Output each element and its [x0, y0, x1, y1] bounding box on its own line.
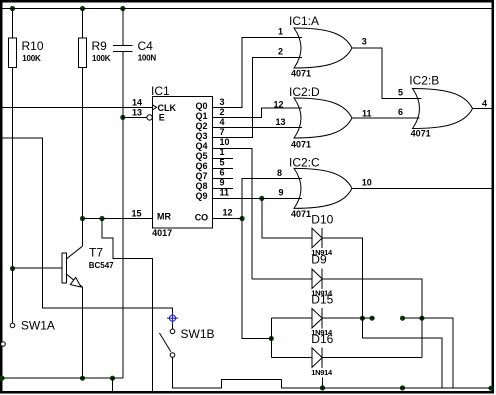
- wire IC2:D output to IC2:B input6: [352, 117, 420, 119]
- node Q9 D10 junction: [259, 196, 264, 201]
- svg-text:Q7: Q7: [195, 171, 207, 181]
- svg-text:5: 5: [220, 157, 225, 167]
- svg-text:4: 4: [482, 98, 487, 108]
- svg-text:4017: 4017: [152, 228, 172, 238]
- svg-text:12: 12: [274, 100, 284, 110]
- svg-text:MR: MR: [157, 212, 171, 222]
- svg-text:7: 7: [220, 127, 225, 137]
- node bus drop junction: [110, 376, 115, 381]
- svg-text:T7: T7: [89, 246, 103, 260]
- node anode link junction: [269, 336, 274, 341]
- svg-text:13: 13: [132, 108, 142, 118]
- svg-text:Q9: Q9: [195, 191, 207, 201]
- wire Q5 pin1 stub: [213, 157, 233, 159]
- switch SW1B: [169, 315, 175, 321]
- svg-text:13: 13: [276, 117, 286, 127]
- svg-text:Q2: Q2: [195, 121, 207, 131]
- svg-text:IC2:D: IC2:D: [289, 85, 320, 99]
- wire Q0 pin3 to IC1:A input1: [213, 38, 302, 108]
- svg-text:3: 3: [362, 37, 367, 47]
- svg-text:Q3: Q3: [195, 131, 207, 141]
- svg-text:D10: D10: [311, 213, 333, 227]
- node D15 line D9 junction: [419, 316, 424, 321]
- svg-text:5: 5: [398, 88, 403, 98]
- node bottom bus mid junction: [400, 385, 405, 390]
- wire MR line: [83, 218, 153, 220]
- wire Q8 pin9 stub: [213, 187, 233, 189]
- svg-text:D16: D16: [311, 332, 333, 346]
- wire IC1:A output to IC2:B input5: [352, 48, 422, 99]
- diode D10: [311, 213, 333, 258]
- node top-bus C4 junction: [120, 6, 125, 11]
- svg-text:11: 11: [220, 187, 230, 197]
- wire Q9 pin11 to IC2:C input9: [213, 197, 302, 199]
- node D15 line jog junction: [370, 316, 375, 321]
- svg-text:C4: C4: [138, 39, 154, 53]
- wire jog down from D10 cathode to bus: [362, 318, 442, 388]
- diode D15: [271, 292, 333, 337]
- svg-text:R10: R10: [22, 39, 44, 53]
- wire Q9 down to D10: [262, 198, 312, 238]
- wire D15 cathode line left segment: [322, 317, 374, 319]
- wire CO down to D15 D16 anodes: [242, 219, 271, 339]
- wire C4 bottom long vertical to left bus: [122, 52, 124, 379]
- svg-text:SW1B: SW1B: [181, 327, 215, 341]
- wire Q7 pin6 stub: [213, 177, 233, 179]
- node MR zigzag junction: [99, 216, 104, 221]
- wire bus to bottom border: [112, 378, 114, 392]
- wire R10 bottom to SW1A: [12, 68, 14, 324]
- svg-text:10: 10: [362, 177, 372, 187]
- svg-text:14: 14: [132, 98, 142, 108]
- node D15 line D10 junction: [360, 316, 365, 321]
- resistor R10: [9, 38, 17, 68]
- svg-text:IC2:C: IC2:C: [289, 156, 320, 170]
- svg-text:SW1A: SW1A: [21, 319, 55, 333]
- svg-text:6: 6: [220, 167, 225, 177]
- svg-text:CLK: CLK: [158, 103, 177, 113]
- wire Q4 pin10 down to D9: [213, 148, 253, 278]
- wire Q3 pin7 to IC1:A input2: [213, 57, 302, 137]
- wire Q6 pin5 stub: [213, 167, 233, 169]
- wire E line: [123, 116, 147, 118]
- svg-text:Q4: Q4: [195, 141, 207, 151]
- svg-text:4071: 4071: [411, 129, 431, 139]
- node D15 line mid junction: [400, 316, 405, 321]
- diode D9: [252, 253, 333, 298]
- svg-text:D15: D15: [311, 292, 333, 306]
- svg-text:8: 8: [277, 168, 282, 178]
- svg-text:2: 2: [220, 107, 225, 117]
- svg-text:4071: 4071: [291, 140, 311, 150]
- svg-text:3: 3: [220, 97, 225, 107]
- wire D10 cathode down to D15 line: [322, 238, 362, 318]
- svg-text:Q0: Q0: [195, 101, 207, 111]
- wire whisker above bus: [322, 378, 324, 388]
- wire zigzag MR to bottom border: [102, 219, 153, 393]
- wire CLK line from left border: [1, 106, 152, 108]
- gate IC2:B 4071 OR: [398, 74, 487, 139]
- svg-text:Q8: Q8: [195, 181, 207, 191]
- node top-bus R9 junction: [80, 6, 85, 11]
- svg-text:CO: CO: [195, 213, 209, 223]
- svg-text:2: 2: [278, 46, 283, 56]
- gate IC2:D 4071 OR: [274, 85, 372, 150]
- svg-text:4071: 4071: [291, 69, 311, 79]
- gate IC1:A 4071 OR: [278, 14, 367, 79]
- node bus border junction: [0, 376, 5, 381]
- wire left bottom bus: [1, 377, 123, 379]
- wire C4 top: [122, 9, 124, 46]
- wire Q1 pin2 to IC2:D input12: [213, 108, 302, 117]
- node MR R9-collector junction: [80, 216, 85, 221]
- wire D15 D16 anode link: [270, 318, 272, 357]
- IC1 enable bubble pin 13: [147, 115, 152, 120]
- wire top bus: [1, 8, 493, 10]
- IC1 clock wedge pin 14: [152, 105, 156, 110]
- wire R9 top: [82, 9, 84, 39]
- svg-text:12: 12: [223, 208, 233, 218]
- node CO junction: [240, 216, 245, 221]
- svg-text:Q6: Q6: [195, 161, 207, 171]
- wire Q2 pin4 to IC2:D input13: [213, 126, 302, 128]
- svg-text:BC547: BC547: [89, 261, 114, 270]
- node bottom bus D16 junction: [320, 385, 325, 390]
- svg-text:100K: 100K: [92, 54, 111, 63]
- svg-text:4071: 4071: [291, 209, 311, 219]
- svg-text:Q5: Q5: [195, 151, 207, 161]
- wire SW1B bottom run: [173, 357, 494, 388]
- svg-text:D9: D9: [311, 253, 327, 267]
- wire D15 cathode line right segment: [403, 318, 454, 388]
- svg-text:1: 1: [220, 147, 225, 157]
- wire R9 bottom to MR node: [82, 68, 84, 219]
- svg-text:100N: 100N: [138, 54, 157, 63]
- wire R10 top: [12, 9, 14, 39]
- svg-text:9: 9: [279, 187, 284, 197]
- svg-text:11: 11: [362, 109, 372, 119]
- svg-text:1N914: 1N914: [311, 368, 333, 377]
- svg-text:6: 6: [398, 107, 403, 117]
- svg-text:15: 15: [131, 208, 141, 218]
- node E C4 junction: [120, 115, 125, 120]
- svg-text:IC1:A: IC1:A: [289, 14, 319, 28]
- gate IC2:C 4071 OR: [277, 156, 372, 220]
- svg-text:4: 4: [220, 117, 225, 127]
- wire IC2:B output to right border: [473, 108, 494, 110]
- IC1 4017 body: [152, 96, 212, 228]
- node top-bus R10 junction: [10, 6, 15, 11]
- transistor T7: [62, 253, 67, 283]
- capacitor C4: [113, 45, 133, 51]
- svg-text:IC2:B: IC2:B: [409, 74, 439, 88]
- wire left border to SW1B feed: [1, 138, 173, 329]
- wire CO up to IC2:C input8: [242, 178, 302, 218]
- node bottom bus right corner junction: [488, 386, 493, 391]
- node base junction: [10, 266, 15, 271]
- svg-text:IC1: IC1: [151, 84, 170, 98]
- svg-text:R9: R9: [92, 39, 108, 53]
- svg-text:9: 9: [220, 177, 225, 187]
- switch SW1A: [10, 323, 15, 328]
- svg-text:E: E: [159, 113, 165, 123]
- resistor R9: [79, 38, 87, 68]
- wire IC2:C output to right border: [352, 187, 493, 189]
- wire D9 cathode down to D16 line: [322, 279, 422, 358]
- svg-text:1: 1: [278, 27, 283, 37]
- wire T7 base from R10 line: [13, 267, 63, 269]
- node bus emitter junction: [80, 376, 85, 381]
- wire D16 cathode: [322, 357, 422, 359]
- svg-text:10: 10: [220, 137, 230, 147]
- wire CO pin12: [213, 218, 243, 220]
- svg-text:100K: 100K: [22, 54, 41, 63]
- svg-text:Q1: Q1: [195, 111, 207, 121]
- diode D16: [271, 332, 333, 377]
